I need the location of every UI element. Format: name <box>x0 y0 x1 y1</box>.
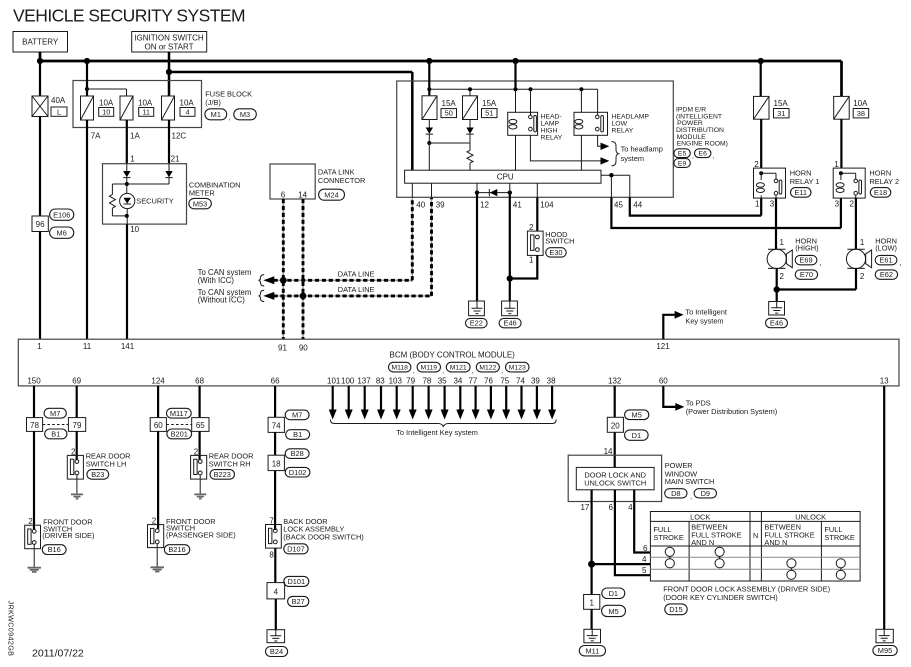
svg-text:2: 2 <box>152 516 157 525</box>
wire BCM13 to M95 <box>883 386 885 629</box>
wire pin45 to horn relay2 coil <box>611 197 841 228</box>
svg-text:3: 3 <box>835 199 840 208</box>
svg-text:12C: 12C <box>172 132 187 141</box>
svg-text:2: 2 <box>28 517 33 526</box>
svg-text:1: 1 <box>589 599 594 608</box>
svg-text:35: 35 <box>438 377 447 386</box>
svg-text:D8: D8 <box>671 489 680 498</box>
svg-text:77: 77 <box>468 377 477 386</box>
connector 4 D101 B27 <box>267 548 309 606</box>
svg-text:68: 68 <box>195 377 204 386</box>
svg-text:14: 14 <box>298 190 307 199</box>
diode D (meter pin1) <box>123 164 130 184</box>
svg-text:,: , <box>442 368 444 375</box>
svg-text:10A: 10A <box>853 99 868 108</box>
svg-text:45: 45 <box>614 200 623 209</box>
svg-text:1: 1 <box>755 199 760 208</box>
BCM top pin labels <box>37 342 670 353</box>
svg-text:10A: 10A <box>180 99 195 108</box>
label front door lock assembly D15 <box>663 584 830 614</box>
svg-text:78: 78 <box>30 421 39 430</box>
fuse 10A 10 <box>81 96 114 339</box>
svg-text:3: 3 <box>770 199 775 208</box>
svg-text:,: , <box>713 153 715 160</box>
wire BCM69 down <box>76 386 78 418</box>
svg-text:1: 1 <box>860 238 865 247</box>
svg-text:M3: M3 <box>240 110 250 119</box>
svg-text:M24: M24 <box>324 190 338 199</box>
table contact circles lock <box>665 547 724 568</box>
svg-text:10A: 10A <box>138 99 153 108</box>
front door switch passenger B216 <box>148 431 236 554</box>
svg-text:B16: B16 <box>48 545 61 554</box>
wire horns common ground <box>774 268 857 301</box>
back door lock assembly D107 <box>266 471 364 560</box>
svg-text:E30: E30 <box>549 248 562 257</box>
fuse 10A 4 <box>162 96 196 164</box>
svg-text:2: 2 <box>529 223 534 232</box>
BCM bottom pin labels <box>27 377 889 386</box>
svg-text:60: 60 <box>659 377 668 386</box>
IPDM pin 12 wire to E22 <box>477 183 490 301</box>
wire BCM132 down <box>614 386 616 417</box>
IPDM pin 39 <box>432 183 446 209</box>
wire ignition feed <box>166 52 412 170</box>
connector 60 <box>150 418 166 432</box>
ground (rear RH) <box>194 475 206 499</box>
svg-text:DATA LINE: DATA LINE <box>338 285 375 294</box>
svg-text:6: 6 <box>608 503 613 512</box>
svg-text:To Intelligent Key system: To Intelligent Key system <box>396 428 478 437</box>
svg-text:M121: M121 <box>450 365 467 372</box>
fuse 10A 11 <box>120 96 154 164</box>
horn relay 2 E18 <box>833 160 899 209</box>
rear door switch LH B23 <box>67 431 130 479</box>
svg-text:11: 11 <box>83 342 92 351</box>
svg-text:6: 6 <box>281 190 286 199</box>
svg-text:75: 75 <box>500 377 509 386</box>
IPDM pin 41 wire <box>507 183 523 301</box>
svg-text:E11: E11 <box>794 188 807 197</box>
svg-text:B28: B28 <box>291 449 304 458</box>
BCM body control module box <box>18 339 899 386</box>
svg-text:CONNECTOR: CONNECTOR <box>318 176 366 185</box>
svg-text:4: 4 <box>628 503 633 512</box>
svg-text:2: 2 <box>754 160 759 169</box>
svg-text:65: 65 <box>196 421 205 430</box>
svg-text:4: 4 <box>274 588 279 597</box>
svg-text:D1: D1 <box>632 431 641 440</box>
wire BCM66 down <box>274 386 276 417</box>
svg-text:UNLOCK SWITCH: UNLOCK SWITCH <box>584 479 646 488</box>
diode under fuse 50 <box>426 120 470 171</box>
svg-text:132: 132 <box>608 377 622 386</box>
svg-text:12: 12 <box>480 200 489 209</box>
svg-text:101: 101 <box>327 377 341 386</box>
svg-text:E22: E22 <box>470 319 483 328</box>
svg-text:M122: M122 <box>479 365 496 372</box>
svg-text:1A: 1A <box>130 132 140 141</box>
svg-text:M1: M1 <box>211 110 221 119</box>
CPU <box>405 170 601 183</box>
svg-text:83: 83 <box>376 377 385 386</box>
svg-text:13: 13 <box>880 377 889 386</box>
svg-text:1: 1 <box>529 256 534 265</box>
svg-text:METER: METER <box>189 188 215 197</box>
svg-text:(With ICC): (With ICC) <box>198 276 235 285</box>
svg-text:(DRIVER SIDE): (DRIVER SIDE) <box>42 531 94 540</box>
svg-text:RELAY 2: RELAY 2 <box>869 177 899 186</box>
wire relay2 pin2 to horn low <box>855 198 857 249</box>
svg-text:(PASSENGER SIDE): (PASSENGER SIDE) <box>166 531 236 540</box>
connector 96 E106/M6 <box>32 209 74 339</box>
svg-text:124: 124 <box>151 377 165 386</box>
svg-text:141: 141 <box>121 342 135 351</box>
svg-text:M7: M7 <box>292 411 302 420</box>
svg-text:D9: D9 <box>701 489 710 498</box>
data link connector M24 <box>270 164 365 200</box>
svg-text:BATTERY: BATTERY <box>22 38 59 47</box>
svg-text:38: 38 <box>547 377 556 386</box>
svg-text:2: 2 <box>780 272 785 281</box>
svg-text:74: 74 <box>272 422 281 431</box>
svg-text:,: , <box>229 113 231 122</box>
wire battery bus <box>37 52 842 96</box>
svg-text:,: , <box>690 491 692 500</box>
svg-text:100: 100 <box>341 377 355 386</box>
battery B1 <box>13 32 68 53</box>
svg-text:6: 6 <box>643 544 648 553</box>
node to headlamp system arrows <box>530 135 663 166</box>
svg-text:B201: B201 <box>171 430 188 439</box>
wire data line 2 dashed <box>263 197 431 300</box>
ignition switch <box>132 32 207 53</box>
svg-text:DATA LINE: DATA LINE <box>338 270 375 279</box>
svg-text:M11: M11 <box>585 646 599 655</box>
svg-text:D107: D107 <box>287 544 305 553</box>
wire BCM150 down <box>33 386 35 418</box>
fuse 15A 51 <box>429 87 597 119</box>
connector 65 M117 B201 <box>166 408 209 439</box>
svg-text:B1: B1 <box>51 430 60 439</box>
front door switch driver B16 <box>25 431 95 554</box>
svg-text:Key system: Key system <box>685 316 723 325</box>
svg-text:18: 18 <box>272 460 281 469</box>
IPDM pins 45 44 <box>601 173 643 209</box>
key cylinder switch table <box>642 512 860 582</box>
svg-text:(Power Distribution System): (Power Distribution System) <box>686 407 778 416</box>
svg-text:,: , <box>501 368 503 375</box>
svg-text:AND N: AND N <box>764 538 787 547</box>
svg-text:JRKWC0942GB: JRKWC0942GB <box>7 601 16 657</box>
wire meter pin10 to BCM141 <box>127 224 140 339</box>
svg-text:BCM (BODY CONTROL MODULE): BCM (BODY CONTROL MODULE) <box>390 350 516 359</box>
diode CPU 12-41 <box>475 189 512 196</box>
svg-text:HIGH: HIGH <box>541 128 558 135</box>
IPDM pin 104 wire to hood switch <box>537 183 554 231</box>
ground E46 (hood) <box>499 301 521 328</box>
svg-text:ON or START: ON or START <box>144 42 193 51</box>
fuse 10A 38 <box>834 96 869 168</box>
node To CAN system (With ICC) <box>198 268 265 286</box>
svg-text:34: 34 <box>453 377 462 386</box>
svg-text:(J/B): (J/B) <box>205 98 221 107</box>
svg-text:D102: D102 <box>289 468 307 477</box>
svg-text:(DOOR KEY CYLINDER SWITCH): (DOOR KEY CYLINDER SWITCH) <box>663 593 777 602</box>
svg-text:ENGINE ROOM): ENGINE ROOM) <box>677 141 728 148</box>
svg-text:76: 76 <box>484 377 493 386</box>
svg-text:E18: E18 <box>874 188 887 197</box>
rear door switch RH B223 <box>191 431 254 479</box>
svg-text:B216: B216 <box>168 545 185 554</box>
wire DLC pin6 CAN-H dashed <box>282 199 284 339</box>
svg-text:L: L <box>57 107 61 116</box>
ground M95 <box>873 629 897 655</box>
horn low E61 E62 <box>846 236 901 280</box>
diode under fuse 51 <box>466 120 473 151</box>
svg-text:N: N <box>753 531 758 540</box>
svg-text:MAIN SWITCH: MAIN SWITCH <box>665 477 715 486</box>
svg-text:HEADLAMP: HEADLAMP <box>612 114 650 121</box>
svg-text:96: 96 <box>36 220 45 229</box>
node BCM60 to PDS <box>663 386 777 416</box>
svg-text:D101: D101 <box>287 577 305 586</box>
svg-text:M118: M118 <box>391 365 408 372</box>
svg-text:31: 31 <box>777 109 785 118</box>
svg-text:E5: E5 <box>678 151 687 158</box>
svg-text:4: 4 <box>185 107 189 116</box>
svg-text:10: 10 <box>130 225 139 234</box>
svg-text:50: 50 <box>445 109 453 118</box>
svg-text:B27: B27 <box>292 597 305 606</box>
svg-text:17: 17 <box>580 503 589 512</box>
svg-text:E46: E46 <box>770 319 783 328</box>
svg-text:CPU: CPU <box>497 173 514 182</box>
svg-text:79: 79 <box>73 421 82 430</box>
ground E46 (horns) <box>766 302 788 328</box>
wire low coil to CPU <box>580 135 582 170</box>
fuse 15A 50 <box>422 61 457 120</box>
svg-text:11: 11 <box>142 107 150 116</box>
svg-text:SECURITY: SECURITY <box>136 197 173 206</box>
svg-text:UNLOCK: UNLOCK <box>795 513 826 522</box>
wire pin44 to horn relay1 coil <box>630 197 761 215</box>
svg-text:D1: D1 <box>609 589 618 598</box>
svg-text:M119: M119 <box>421 365 438 372</box>
svg-text:E69: E69 <box>799 256 812 265</box>
svg-text:2: 2 <box>850 199 855 208</box>
svg-text:E62: E62 <box>880 270 893 279</box>
svg-text:8: 8 <box>269 550 274 559</box>
svg-text:1: 1 <box>834 160 839 169</box>
svg-text:HEAD-: HEAD- <box>541 114 562 121</box>
diode D (meter pin21) <box>125 164 173 186</box>
svg-text:,: , <box>820 258 822 267</box>
fuse block J/B box <box>73 81 256 128</box>
svg-text:21: 21 <box>171 155 180 164</box>
wire high coil to CPU <box>515 135 517 170</box>
wire data line 1 dashed <box>263 197 412 284</box>
hood switch E30 <box>527 223 574 265</box>
svg-text:STROKE: STROKE <box>653 533 683 542</box>
svg-text:E61: E61 <box>879 256 892 265</box>
svg-text:137: 137 <box>357 377 371 386</box>
svg-text:,: , <box>692 153 694 160</box>
fusible link 40A L <box>32 61 67 216</box>
svg-text:B1: B1 <box>293 430 302 439</box>
svg-text:M123: M123 <box>509 365 526 372</box>
svg-text:To Intelligent: To Intelligent <box>685 308 727 317</box>
ground B24 <box>266 599 288 657</box>
svg-text:M7: M7 <box>50 409 60 418</box>
svg-text:M5: M5 <box>632 410 642 419</box>
svg-text:1: 1 <box>780 238 785 247</box>
svg-text:E106: E106 <box>53 210 70 219</box>
svg-text:40: 40 <box>416 200 425 209</box>
svg-text:15A: 15A <box>774 99 789 108</box>
svg-text:LOW: LOW <box>612 121 628 128</box>
svg-text:SWITCH RH: SWITCH RH <box>209 460 251 469</box>
svg-text:B24: B24 <box>270 647 283 656</box>
svg-text:2: 2 <box>860 272 865 281</box>
svg-text:RELAY: RELAY <box>541 135 563 142</box>
svg-text:M117: M117 <box>170 409 188 418</box>
IPDM E/R box <box>397 81 728 197</box>
svg-text:74: 74 <box>516 377 525 386</box>
ground (front passenger) <box>151 544 165 572</box>
svg-text:10A: 10A <box>99 99 114 108</box>
security LED <box>120 184 174 224</box>
svg-text:,: , <box>900 258 902 267</box>
wire BCM124 down <box>157 386 159 418</box>
svg-text:(Without ICC): (Without ICC) <box>198 296 246 305</box>
svg-text:RELAY 1: RELAY 1 <box>790 177 820 186</box>
svg-text:system: system <box>621 154 644 163</box>
svg-text:121: 121 <box>656 342 670 351</box>
svg-text:7A: 7A <box>91 132 101 141</box>
svg-text:E9: E9 <box>678 160 687 167</box>
svg-text:10: 10 <box>102 107 110 116</box>
svg-text:SWITCH: SWITCH <box>545 236 574 245</box>
svg-text:44: 44 <box>633 200 642 209</box>
svg-text:4: 4 <box>642 555 647 564</box>
svg-text:E70: E70 <box>800 270 813 279</box>
svg-text:M5: M5 <box>608 607 618 616</box>
svg-text:150: 150 <box>27 377 41 386</box>
svg-text:LAMP: LAMP <box>541 121 560 128</box>
connector 78 <box>27 418 43 432</box>
svg-text:69: 69 <box>72 377 81 386</box>
svg-text:78: 78 <box>422 377 431 386</box>
resistor (meter) <box>109 184 126 216</box>
connector 74 M7 B1 <box>268 410 310 439</box>
svg-text:AND N: AND N <box>691 538 714 547</box>
svg-text:B23: B23 <box>91 470 104 479</box>
power window main switch D8 D9 <box>568 432 716 512</box>
wire switch pin17 junction <box>588 490 650 595</box>
svg-text:66: 66 <box>271 377 280 386</box>
connector 1 D1 M5 <box>584 588 626 617</box>
svg-text:2011/07/22: 2011/07/22 <box>32 648 84 660</box>
svg-text:To headlamp: To headlamp <box>621 145 663 154</box>
svg-text:91: 91 <box>278 344 287 353</box>
ground M11 <box>579 609 605 656</box>
svg-text:(BACK DOOR SWITCH): (BACK DOOR SWITCH) <box>283 533 363 542</box>
wire fuse block feeds <box>85 61 127 96</box>
resistor (IPDM) <box>467 150 473 170</box>
IPDM pin 40 <box>412 183 425 209</box>
svg-text:,: , <box>413 368 415 375</box>
svg-text:,: , <box>472 368 474 375</box>
ground E22 <box>466 301 488 328</box>
svg-text:(HIGH): (HIGH) <box>795 244 818 253</box>
svg-text:79: 79 <box>406 377 415 386</box>
svg-text:RELAY: RELAY <box>612 128 634 135</box>
fuse 15A 31 <box>754 61 790 168</box>
node BCM121 to intelligent key <box>663 308 727 340</box>
svg-text:60: 60 <box>154 421 163 430</box>
svg-text:15A: 15A <box>482 99 497 108</box>
svg-text:D15: D15 <box>669 605 683 614</box>
svg-text:38: 38 <box>857 109 865 118</box>
svg-text:20: 20 <box>611 422 620 431</box>
svg-text:90: 90 <box>299 344 308 353</box>
svg-text:SWITCH LH: SWITCH LH <box>86 460 127 469</box>
svg-text:39: 39 <box>436 200 445 209</box>
svg-text:51: 51 <box>485 109 493 118</box>
node BCM to intelligent key 15 arrows <box>329 386 557 437</box>
wire switch pin4 to table row6 <box>634 490 650 553</box>
svg-text:B223: B223 <box>214 470 231 479</box>
svg-text:M6: M6 <box>57 228 67 237</box>
connector 20 M5 D1 <box>607 410 649 440</box>
svg-text:E46: E46 <box>504 319 517 328</box>
wire relay1 pin3 to horn high <box>775 198 777 249</box>
svg-text:39: 39 <box>531 377 540 386</box>
svg-text:M95: M95 <box>878 646 892 655</box>
ground (rear LH) <box>71 475 83 499</box>
svg-text:41: 41 <box>513 200 522 209</box>
horn high E69 E70 <box>767 236 822 280</box>
svg-text:5: 5 <box>642 566 647 575</box>
svg-text:1: 1 <box>37 342 42 351</box>
combination meter M53 <box>103 155 241 225</box>
wire switch pin6 to table row5 <box>615 490 651 575</box>
headlamp low relay <box>574 87 649 135</box>
headlamp high relay <box>508 61 563 142</box>
wire BCM68 down <box>199 386 201 418</box>
svg-text:(LOW): (LOW) <box>875 244 897 253</box>
table contact circles unlock <box>787 559 846 580</box>
wire hood switch to junction <box>510 255 538 278</box>
svg-text:15A: 15A <box>442 99 457 108</box>
svg-text:STROKE: STROKE <box>824 533 854 542</box>
svg-text:VEHICLE SECURITY SYSTEM: VEHICLE SECURITY SYSTEM <box>13 6 245 26</box>
wire DLC pin14 CAN-L dashed <box>302 199 304 339</box>
svg-text:LOCK: LOCK <box>690 513 710 522</box>
svg-text:M53: M53 <box>193 199 207 208</box>
svg-text:40A: 40A <box>51 96 66 105</box>
connector 79 M7 B1 <box>43 408 86 439</box>
svg-text:1: 1 <box>130 155 135 164</box>
svg-text:E6: E6 <box>699 151 708 158</box>
ground (front driver) <box>28 544 42 572</box>
horn relay 1 E11 <box>754 160 820 209</box>
svg-text:103: 103 <box>389 377 403 386</box>
svg-text:104: 104 <box>540 200 554 209</box>
connector 18 B28 D102 <box>268 432 310 477</box>
node To CAN system (Without ICC) <box>198 288 265 305</box>
